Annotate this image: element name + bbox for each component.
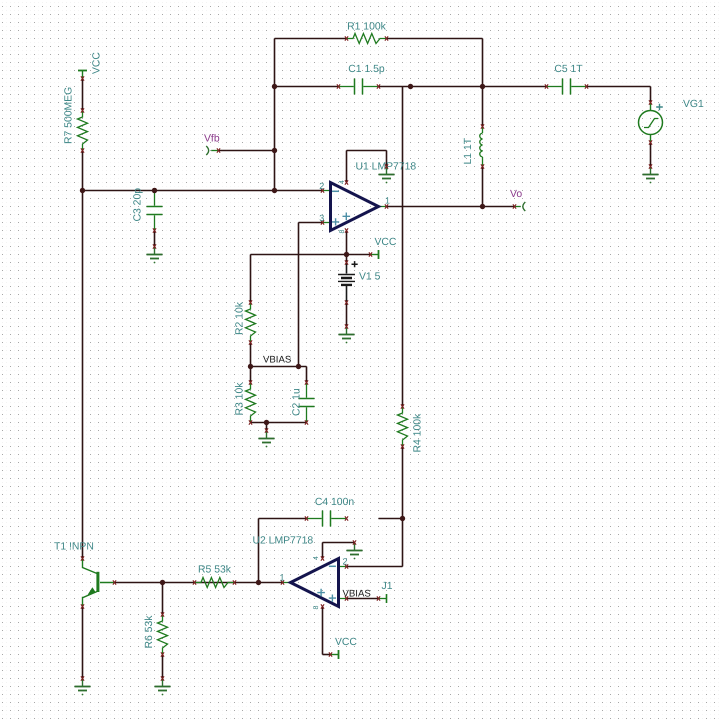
node main left junction: [80, 188, 85, 193]
wire C1 left: [275, 86, 339, 88]
wire L1 bottom: [482, 167, 484, 207]
ground U2 top: [347, 540, 363, 559]
svg-text:R6 53k: R6 53k: [144, 615, 155, 649]
wire R6 to ground: [162, 655, 164, 679]
svg-text:4: 4: [313, 556, 320, 560]
svg-text:R1 100k: R1 100k: [347, 22, 387, 33]
node R6 junction: [160, 580, 165, 585]
wire R1 left: [275, 38, 347, 40]
svg-text:VCC: VCC: [335, 637, 357, 648]
op-amp U1: [321, 180, 388, 232]
svg-text:L1 1T: L1 1T: [463, 137, 474, 164]
wire down to bus: [482, 39, 484, 87]
svg-text:R5 53k: R5 53k: [198, 565, 232, 576]
node feedback-main junction: [272, 188, 277, 193]
resistor R7: [78, 108, 88, 152]
svg-text:VCC: VCC: [92, 52, 103, 74]
capacitor C4: [305, 511, 348, 527]
wire VG1 top: [650, 87, 652, 103]
wire V1 to ground: [346, 303, 348, 327]
resistor R6: [158, 612, 168, 656]
wire U2 top to ground: [323, 542, 355, 544]
wire pin3 down to VBIAS: [298, 223, 300, 367]
wire R2 to VBIAS: [250, 343, 252, 367]
VCC symbol U2: [329, 650, 339, 659]
svg-text:2: 2: [319, 181, 324, 191]
svg-text:T1 !NPN: T1 !NPN: [54, 542, 94, 553]
wire feedback left vertical: [274, 39, 276, 191]
svg-text:1: 1: [385, 196, 390, 206]
wire base row: [115, 582, 283, 584]
ground C3: [147, 244, 163, 263]
wire feedback right vertical: [402, 87, 404, 407]
wire U2 pin2: [347, 566, 403, 568]
svg-text:C5 1T: C5 1T: [554, 64, 583, 75]
wire down to R2: [250, 255, 252, 303]
ground R3-C2: [259, 428, 275, 447]
wire Vfb: [219, 150, 275, 152]
node Vfb junction: [272, 148, 277, 153]
ground V1: [339, 324, 355, 343]
wire U2 bottom pin: [322, 607, 324, 655]
wire VCC to R7: [82, 79, 84, 111]
ground T1: [75, 676, 91, 695]
svg-text:VCC: VCC: [375, 237, 397, 248]
wire VG1 bottom: [650, 143, 652, 167]
svg-text:1: 1: [280, 573, 285, 583]
ground VG1: [643, 164, 659, 183]
wire down to U2 pin2: [402, 519, 404, 567]
capacitor C2: [299, 380, 315, 424]
resistor R1: [345, 34, 388, 44]
wire R1 right: [387, 38, 483, 40]
svg-text:R3 10k: R3 10k: [235, 382, 246, 416]
node L1 top junction: [480, 84, 485, 89]
ground R6: [155, 676, 171, 695]
wire L1 top: [482, 87, 484, 127]
svg-text:R2 10k: R2 10k: [235, 301, 246, 335]
node output junction: [480, 204, 485, 209]
node VBIAS right junction: [296, 364, 301, 369]
svg-text:VG1: VG1: [683, 99, 704, 110]
node bus junction: [408, 84, 413, 89]
svg-text:U2 LMP7718: U2 LMP7718: [253, 536, 314, 547]
wire C5 to VG1: [587, 86, 651, 88]
node C4-base junction: [256, 580, 261, 585]
terminal Vo: [513, 202, 525, 211]
wire T1 emitter to ground: [82, 607, 84, 679]
wire U1 top pin up: [346, 151, 348, 183]
svg-text:VBIAS: VBIAS: [343, 588, 371, 599]
node C4-R4 junction: [400, 516, 405, 521]
node R3-C2 ground junction: [264, 420, 269, 425]
transistor T1: [81, 556, 116, 608]
wire VBIAS to R3: [250, 367, 252, 383]
jumper J1: [377, 594, 387, 603]
wire U1 output: [387, 206, 515, 208]
ground U1: [379, 164, 395, 183]
wire C4 left: [259, 518, 307, 520]
resistor R5: [193, 578, 236, 588]
svg-text:C1 1.5p: C1 1.5p: [348, 64, 385, 75]
svg-text:Vo: Vo: [510, 189, 522, 200]
wire main horizontal node: [83, 190, 323, 192]
resistor R2: [246, 300, 256, 344]
wire C3 to ground: [154, 231, 156, 247]
capacitor C1: [337, 79, 380, 95]
svg-text:C3 20p: C3 20p: [133, 188, 144, 222]
node VBIAS left junction: [248, 364, 253, 369]
wire to ground: [266, 423, 268, 431]
wire R4 to C4 node: [402, 447, 404, 519]
wire R3-C2 bottom: [251, 422, 307, 424]
svg-text:3: 3: [319, 213, 324, 223]
VCC symbol top-left: [78, 71, 87, 81]
svg-text:R7 500MEG: R7 500MEG: [64, 87, 75, 144]
terminal Vfb: [206, 146, 220, 155]
wire C4 corner down: [258, 519, 260, 583]
wire U1 pin3: [299, 222, 323, 224]
wire VBIAS horizontal: [251, 366, 307, 368]
wire C4 right: [379, 518, 403, 520]
wire R7 down: [82, 151, 84, 191]
svg-text:J1: J1: [382, 581, 393, 592]
inductor L1: [480, 124, 484, 168]
wire to R6: [162, 583, 164, 615]
wire to T1 collector: [82, 191, 84, 559]
svg-text:R4 100k: R4 100k: [413, 413, 424, 453]
node C3 junction: [152, 188, 157, 193]
node VCC rail junction: [344, 252, 349, 257]
svg-text:8: 8: [313, 606, 320, 610]
resistor R4: [398, 404, 408, 448]
wire U2 top pin: [322, 543, 324, 559]
wire U2 pin3 to J1: [347, 598, 379, 600]
wire U1 top horizontal: [347, 150, 387, 152]
node C1 branch junction: [272, 84, 277, 89]
svg-text:C4 100n: C4 100n: [315, 497, 355, 508]
battery V1: [338, 260, 358, 304]
wire to U1 ground: [386, 151, 388, 167]
op-amp U2: [281, 556, 348, 608]
svg-text:VBIAS: VBIAS: [263, 354, 291, 365]
wire U1 bottom pin: [346, 231, 348, 263]
svg-text:8: 8: [339, 230, 346, 234]
resistor R3: [246, 380, 256, 424]
capacitor C5: [545, 79, 588, 95]
svg-text:C2 1u: C2 1u: [292, 388, 303, 416]
wire VCC rail U1: [251, 254, 371, 256]
svg-text:Vfb: Vfb: [204, 134, 220, 145]
wire to VCC U2: [323, 654, 331, 656]
wire bus C1-C5: [379, 86, 547, 88]
wire to C2 top: [306, 367, 308, 383]
svg-text:2: 2: [343, 557, 348, 567]
capacitor C3: [147, 188, 163, 232]
voltage generator VG1: [639, 100, 663, 144]
svg-text:V1 5: V1 5: [359, 272, 381, 283]
VCC symbol U1: [369, 250, 379, 259]
svg-text:4: 4: [339, 180, 346, 184]
